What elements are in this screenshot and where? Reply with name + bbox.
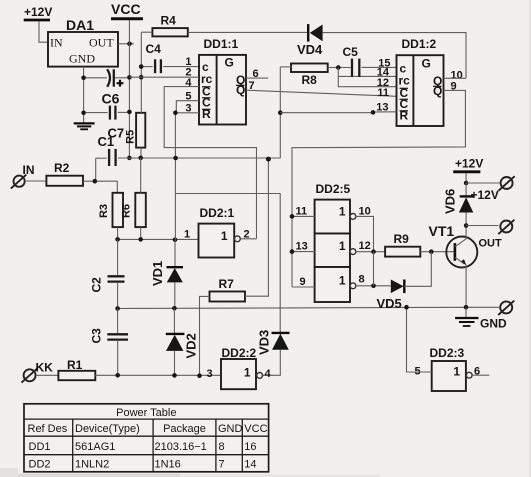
svg-text:C3: C3 [90, 328, 104, 344]
svg-text:12: 12 [359, 240, 371, 252]
wire R1 to DD2:2 pin 3 [95, 374, 221, 376]
wire VD4 to DD1:2 pin10 riser [323, 33, 466, 79]
svg-text:R6: R6 [121, 204, 133, 218]
svg-text:1: 1 [184, 228, 190, 240]
svg-text:1: 1 [339, 239, 346, 253]
svg-text:R3: R3 [98, 204, 110, 218]
wire C1 left riser to R2 [95, 158, 97, 181]
svg-text:+12V: +12V [471, 188, 499, 202]
pin 1 label DD2:1 [184, 228, 190, 240]
svg-text:DA1: DA1 [66, 17, 94, 33]
svg-text:Device(Type): Device(Type) [75, 423, 140, 435]
pin 7 label + wire DD1:1 to DD1:2 pin 11 [246, 80, 397, 97]
power +12V left [24, 5, 53, 20]
terminal IN [11, 163, 35, 189]
svg-text:VD1: VD1 [150, 261, 165, 286]
svg-text:DD1:1: DD1:1 [204, 37, 239, 51]
terminal GND [498, 301, 514, 315]
svg-text:R5: R5 [125, 130, 137, 144]
svg-text:DD2:2: DD2:2 [222, 346, 257, 360]
svg-text:1: 1 [221, 229, 228, 243]
diode VD1 [150, 240, 183, 309]
svg-text:10: 10 [359, 206, 371, 218]
node riser-pin2 [139, 75, 144, 80]
diode VD6 [443, 183, 499, 226]
pin 12 label DD1:2 [377, 77, 389, 89]
pin 9 label + wire DD2:5 [292, 276, 315, 288]
svg-text:VD3: VD3 [257, 330, 272, 355]
node GND-C7 [81, 111, 86, 116]
svg-text:DD1:2: DD1:2 [402, 37, 437, 51]
capacitor C4 [144, 42, 200, 73]
node DA1 OUT / VCC [127, 42, 132, 47]
node R1-VD2 [172, 373, 177, 378]
node C7-VCC [127, 110, 132, 115]
gate DD2:2 [221, 346, 263, 389]
resistor R6 [121, 158, 146, 240]
power +12V right top [453, 157, 483, 184]
capacitor C7 [86, 106, 127, 141]
terminal OUT [466, 220, 514, 250]
node R2-C1 [93, 179, 98, 184]
svg-text:11: 11 [377, 87, 389, 99]
svg-text:VD6: VD6 [443, 189, 458, 214]
svg-text:VD4: VD4 [297, 42, 323, 57]
svg-text:R2: R2 [54, 161, 70, 175]
wire node X feedback line [176, 194, 281, 333]
wire input node X [118, 238, 199, 240]
svg-text:Ref Des: Ref Des [28, 423, 68, 435]
resistor R1 [36, 358, 95, 380]
wire VCC riser [128, 20, 130, 157]
node R8-C5 [336, 65, 341, 70]
svg-text:8: 8 [359, 274, 365, 286]
svg-text:2103.16−1: 2103.16−1 [155, 441, 207, 453]
svg-text:R1: R1 [67, 358, 83, 372]
pin 5 label + wire DD2:3 [404, 305, 432, 378]
voltage regulator DA1 [48, 17, 118, 67]
svg-text:1: 1 [453, 365, 460, 379]
node R1-R7 [197, 373, 202, 378]
svg-text:OUT: OUT [479, 238, 503, 250]
svg-text:VCC: VCC [244, 423, 267, 435]
wire DA1 GND riser [83, 67, 85, 123]
pin 3 label + wire DD1:1 [175, 103, 199, 115]
wire pins3+5 riser [174, 113, 176, 240]
node C6-VCC [127, 75, 132, 80]
resistor R2 [46, 161, 83, 186]
svg-text:Package: Package [163, 423, 206, 435]
wire R8 left riser (to C1 line) [279, 67, 281, 158]
resistor R3 [98, 193, 123, 240]
wire C1 node line [118, 157, 280, 159]
svg-text:1N16: 1N16 [155, 458, 181, 470]
node riser-C4 [139, 64, 144, 69]
node pin13 jog [371, 110, 376, 115]
svg-text:3: 3 [207, 368, 213, 380]
ground (left) [74, 123, 95, 129]
svg-text:7: 7 [219, 458, 225, 470]
transistor VT1 [429, 223, 478, 307]
node +12V [464, 181, 469, 186]
svg-text:G: G [225, 56, 234, 70]
svg-text:+12V: +12V [455, 157, 483, 171]
svg-text:R9: R9 [394, 232, 410, 246]
node riser-C1line [173, 156, 178, 161]
pin 9 label + wire DD1:2 to DD2:5 bus [292, 81, 465, 288]
svg-text:1: 1 [339, 205, 346, 219]
svg-text:OUT: OUT [89, 36, 114, 50]
capacitor C2 [90, 239, 125, 308]
pin 1 label DD1:1 [185, 56, 191, 68]
svg-text:VCC: VCC [111, 1, 141, 17]
pin 5 label + wire DD1:1 [176, 90, 199, 113]
wire ground bus [118, 307, 499, 308]
capacitor C3 [90, 309, 129, 376]
pin 4 label + wire DD1:1 [164, 77, 256, 239]
pin 11 label + wire DD2:5 [290, 206, 315, 219]
svg-text:DD2: DD2 [29, 458, 51, 470]
svg-text:561AG1: 561AG1 [75, 441, 115, 453]
node collector-OUT [464, 223, 469, 228]
resistor R7 [200, 159, 269, 375]
wire IN to R2 [26, 180, 46, 182]
node pins 3-5 [173, 111, 178, 116]
svg-text:R7: R7 [219, 277, 235, 291]
node gnd-VD1/VD2 [172, 306, 177, 311]
resistor R5 [125, 113, 146, 148]
node R5-C1line [138, 156, 143, 161]
svg-text:C4: C4 [146, 42, 162, 56]
node X - C2 [115, 237, 120, 242]
svg-text:1: 1 [339, 274, 346, 288]
IC DD1:2 [397, 37, 444, 126]
pin 15 label DD1:2 [378, 58, 390, 70]
svg-text:GND: GND [69, 52, 95, 66]
capacitor C5 [343, 45, 397, 77]
pin 12 label + wire DD2:5 [356, 240, 385, 254]
svg-text:13: 13 [296, 241, 308, 253]
pin 14 label DD1:2 [377, 67, 390, 79]
IC DD2:5 [315, 182, 356, 302]
wire R8/C5 node to pins 14,12 [338, 68, 396, 87]
pin 4 label DD2:2 [265, 368, 272, 380]
node emitter-GND [464, 305, 469, 310]
svg-text:KK: KK [36, 361, 54, 375]
svg-text:C5: C5 [343, 45, 359, 59]
pin 10 label + wire DD1:2 [444, 70, 467, 82]
resistor R9 [385, 232, 454, 257]
svg-text:VD5: VD5 [377, 296, 402, 311]
node GND-C6 [81, 76, 86, 81]
wire R2 out [83, 181, 117, 193]
capacitor C6 (electrolytic) [86, 69, 127, 106]
svg-text:G: G [422, 57, 431, 71]
svg-text:GND: GND [218, 423, 243, 435]
node R8 riser - pin13 wire [278, 110, 283, 115]
svg-text:R8: R8 [302, 73, 318, 87]
wire +12V to DA1 IN [39, 21, 48, 42]
gate DD2:3 [430, 346, 473, 391]
pin 11 label DD1:2 [377, 87, 389, 99]
power VCC [111, 1, 143, 19]
svg-text:1NLN2: 1NLN2 [75, 458, 109, 470]
svg-text:DD2:5: DD2:5 [316, 182, 351, 196]
diode VD4 [297, 24, 323, 57]
svg-text:GND: GND [480, 317, 507, 331]
svg-text:DD2:1: DD2:1 [200, 206, 235, 220]
node R1-C3 [115, 373, 120, 378]
gate DD2:1 [199, 206, 241, 258]
svg-text:DD1: DD1 [29, 441, 51, 453]
svg-text:8: 8 [219, 441, 225, 453]
svg-text:1: 1 [244, 366, 251, 380]
terminal KK [22, 361, 54, 383]
terminal +12V [466, 176, 515, 190]
capacitor C1 [96, 134, 116, 166]
IC DD1:1 [199, 37, 246, 125]
svg-text:16: 16 [244, 441, 256, 453]
ground (right) [455, 307, 507, 330]
svg-text:Power Table: Power Table [116, 407, 176, 419]
svg-text:VT1: VT1 [429, 223, 455, 239]
wire R4/R5 riser [140, 32, 142, 158]
svg-text:DD2:3: DD2:3 [430, 346, 465, 360]
node R7 - C1 line [266, 157, 271, 162]
diode VD3 [257, 330, 290, 376]
node X - R6 [138, 237, 143, 242]
resistor R8 [280, 64, 350, 88]
pin 3 label DD2:2 [207, 368, 213, 380]
svg-text:9: 9 [300, 276, 306, 288]
diode VD2 [166, 308, 199, 375]
svg-text:C2: C2 [90, 277, 104, 293]
svg-text:4: 4 [265, 368, 272, 380]
svg-text:C6: C6 [102, 91, 120, 107]
node gnd-C2/C3 [115, 306, 120, 311]
wire DA1 OUT stub [118, 43, 134, 45]
svg-text:14: 14 [244, 458, 256, 470]
pin 6 label + stub DD1:1 [246, 68, 268, 80]
svg-text:+12V: +12V [24, 5, 52, 19]
svg-text:11: 11 [296, 206, 308, 218]
svg-text:R4: R4 [161, 14, 177, 28]
pin 6 label + output wire DD2:3 [472, 366, 489, 378]
svg-text:C1: C1 [98, 134, 115, 149]
power table [24, 404, 269, 472]
pin 2 label + wire DD1:1 [129, 67, 199, 79]
pin 8 label + wire DD2:5 [356, 252, 391, 288]
pin 10 label + wire DD2:5 [356, 206, 374, 252]
resistor R4 [141, 14, 308, 37]
node VCC-C1line [127, 156, 132, 161]
node X - VD1 riser [173, 237, 178, 242]
svg-text:VD2: VD2 [184, 333, 199, 358]
svg-text:IN: IN [50, 36, 63, 50]
diode VD5 [377, 252, 432, 311]
svg-text:4: 4 [185, 77, 192, 89]
pin 2 label + output wire DD2:1 [240, 228, 256, 240]
svg-text:IN: IN [23, 163, 35, 177]
pin 13 label + wire DD1:2 [280, 102, 396, 114]
pin 13 label + wire DD2:5 [290, 241, 315, 254]
